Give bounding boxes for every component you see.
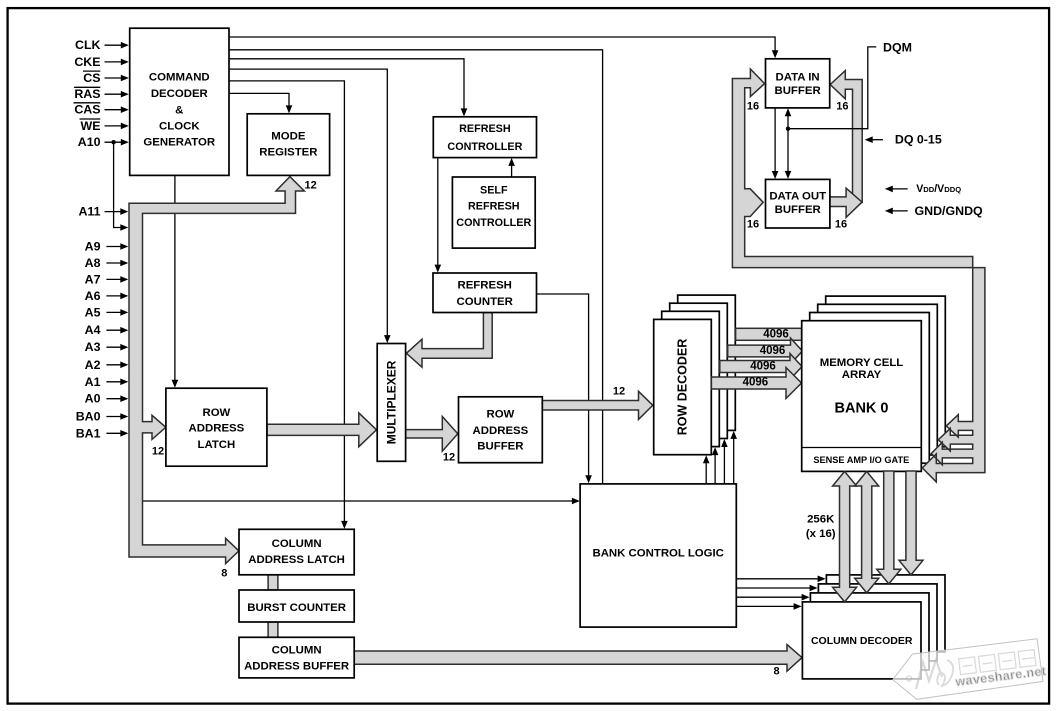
wire bank control logic to row decoder bank0 (705, 460, 707, 484)
box data in buffer (766, 59, 830, 108)
box row decoder bank2 (670, 303, 728, 438)
wire address bus to bank control logic (143, 500, 576, 502)
svg-text:CKE: CKE (74, 55, 100, 69)
wire RAS input (105, 93, 124, 95)
svg-text:BANK 0: BANK 0 (835, 401, 889, 417)
box refresh controller (433, 117, 536, 158)
svg-text:CS: CS (83, 71, 100, 85)
svg-text:CLOCK: CLOCK (159, 120, 200, 132)
svg-text:16: 16 (835, 219, 847, 231)
box row decoder bank1 (662, 311, 720, 446)
wire gray arrow column address buffer to column decoder (354, 645, 802, 672)
box row address buffer (459, 397, 543, 463)
svg-text:BA0: BA0 (76, 410, 101, 424)
wire gray double arrow sense amp to column decoder bank0 (833, 471, 857, 602)
wire gray arrow row address buffer to row decoder (542, 391, 653, 419)
wire bank control logic to row decoder bank1 (714, 451, 716, 483)
wire self refresh controller to refresh controller (511, 163, 513, 178)
svg-text:12: 12 (304, 180, 316, 192)
svg-text:A6: A6 (85, 289, 101, 303)
wire CKE input (105, 61, 124, 63)
box column address buffer (239, 637, 354, 678)
box column decoder bank0 (802, 602, 921, 679)
svg-text:8: 8 (773, 666, 779, 678)
svg-text:8: 8 (221, 568, 227, 580)
svg-text:4096: 4096 (750, 360, 776, 372)
svg-text:A0: A0 (85, 392, 101, 406)
svg-text:12: 12 (613, 385, 625, 397)
svg-text:GND/GNDQ: GND/GNDQ (915, 204, 984, 218)
svg-text:BUFFER: BUFFER (477, 440, 523, 452)
svg-text:BA1: BA1 (76, 426, 101, 440)
wire A5 input (106, 311, 123, 313)
wire DQM input (788, 47, 876, 129)
box self refresh controller (452, 177, 535, 248)
box row decoder bank3 (678, 295, 736, 430)
wire bank control logic to row decoder bank2 (723, 443, 725, 483)
wire WE input (105, 125, 124, 127)
svg-text:12: 12 (443, 451, 455, 463)
svg-text:(x 16): (x 16) (806, 528, 836, 540)
wire command decoder to multiplexer (229, 69, 387, 338)
svg-text:COLUMN: COLUMN (272, 644, 322, 656)
wire data in buffer to data out buffer (774, 108, 776, 175)
svg-text:4096: 4096 (743, 377, 769, 389)
box memory cell array bank2 (818, 304, 938, 455)
svg-text:REFRESH: REFRESH (459, 123, 511, 135)
svg-text:CONTROLLER: CONTROLLER (456, 217, 531, 229)
box data out buffer (766, 179, 830, 228)
svg-text:VDD/VDDQ: VDD/VDDQ (916, 183, 961, 195)
svg-text:REGISTER: REGISTER (259, 147, 317, 159)
svg-text:BURST COUNTER: BURST COUNTER (247, 602, 346, 614)
box refresh counter (433, 273, 537, 313)
svg-text:CAS: CAS (74, 103, 100, 117)
wire A4 input (106, 329, 123, 331)
wire gray arrow row address latch to multiplexer (267, 413, 377, 447)
box command decoder & clock generator (130, 28, 229, 175)
svg-text:ADDRESS: ADDRESS (189, 423, 245, 435)
svg-text:ROW DECODER: ROW DECODER (676, 339, 690, 436)
svg-text:SENSE AMP I/O GATE: SENSE AMP I/O GATE (813, 455, 909, 465)
wire command decoder to data in buffer (229, 37, 775, 53)
svg-text:GENERATOR: GENERATOR (143, 137, 215, 149)
wire bank control logic to column decoder bank1 (736, 596, 805, 598)
wire GND/GNDQ input (890, 210, 908, 212)
wire command decoder to bank control logic (229, 50, 603, 484)
wire gray bus 4096 row decoder to memory bank1 (720, 354, 802, 380)
svg-text:DQ 0-15: DQ 0-15 (895, 133, 942, 147)
wire BA0 input (106, 416, 123, 418)
svg-text:DQM: DQM (883, 41, 912, 55)
watermark waveshare tag (893, 639, 1043, 700)
box multiplexer (377, 344, 405, 462)
wire A10 branch down to address bus (114, 142, 123, 227)
svg-text:CLK: CLK (75, 38, 101, 52)
svg-text:BUFFER: BUFFER (775, 204, 821, 216)
box memory cell array bank0 (802, 321, 922, 472)
wire gray bar burst counter to column address buffer (268, 622, 278, 637)
svg-text:16: 16 (747, 219, 759, 231)
wire gray bus 4096 row decoder to memory bank2 (728, 338, 803, 364)
wire gray arrow data out buffer to DQ bus (829, 188, 862, 217)
wire gray DQ bus with arrow into data in buffer (830, 71, 862, 203)
box memory cell array bank3 (826, 296, 946, 447)
wire gray double arrow sense amp to column decoder bank1 (855, 471, 879, 593)
wire command decoder to row address latch (174, 175, 176, 383)
wire gray bar column address latch to burst counter (268, 575, 278, 590)
box column decoder bank1 (810, 593, 929, 670)
wire A2 input (106, 364, 123, 366)
svg-text:CONTROLLER: CONTROLLER (447, 141, 522, 153)
wire command decoder to column address latch (229, 81, 344, 524)
svg-text:BANK CONTROL LOGIC: BANK CONTROL LOGIC (592, 548, 723, 560)
box mode register (247, 114, 329, 176)
svg-text:4096: 4096 (763, 328, 789, 340)
svg-text:A1: A1 (85, 375, 101, 389)
wire BA1 input (106, 432, 123, 434)
svg-text:ROW: ROW (486, 408, 514, 420)
wire A3 input (106, 346, 123, 348)
svg-text:A11: A11 (78, 205, 100, 219)
wire command decoder to mode register (229, 93, 289, 108)
box column decoder bank3 (826, 575, 945, 652)
svg-text:ROW: ROW (202, 407, 230, 419)
wire CS input (105, 77, 124, 79)
svg-text:DATA OUT: DATA OUT (769, 191, 826, 203)
wire A6 input (106, 295, 123, 297)
svg-text:256K: 256K (807, 514, 835, 526)
svg-text:BUFFER: BUFFER (774, 85, 820, 97)
box burst counter (239, 590, 354, 622)
wire A10 input (105, 141, 124, 143)
svg-text:ADDRESS: ADDRESS (473, 425, 529, 437)
wire refresh counter to bank control logic (537, 294, 589, 479)
svg-text:A10: A10 (78, 135, 101, 149)
svg-text:ADDRESS BUFFER: ADDRESS BUFFER (244, 660, 349, 672)
wire gray arrow refresh counter to multiplexer (406, 313, 492, 368)
svg-text:A8: A8 (85, 256, 101, 270)
svg-text:A7: A7 (85, 272, 101, 286)
svg-text:WE: WE (81, 119, 101, 133)
box row decoder bank0 (654, 319, 712, 454)
wire gray arrow multiplexer to row address buffer (406, 417, 458, 452)
svg-text:A2: A2 (85, 358, 101, 372)
svg-text:COUNTER: COUNTER (457, 296, 513, 308)
box row address latch (166, 388, 267, 466)
svg-text:ADDRESS LATCH: ADDRESS LATCH (248, 554, 345, 566)
svg-text:A4: A4 (85, 323, 101, 337)
wire A9 input (106, 246, 123, 248)
wire bank control logic to column decoder bank0 (736, 605, 797, 607)
wire DQ 0-15 input (869, 139, 883, 141)
svg-text:A5: A5 (85, 305, 101, 319)
svg-text:MEMORY CELL: MEMORY CELL (820, 357, 904, 369)
svg-text:RAS: RAS (74, 87, 100, 101)
svg-text:MULTIPLEXER: MULTIPLEXER (384, 360, 398, 444)
wire VDD/VDDQ input (890, 188, 908, 190)
box column decoder bank2 (818, 584, 937, 661)
wire refresh controller to refresh counter (437, 158, 439, 268)
wire A7 input (106, 278, 123, 280)
svg-text:REFRESH: REFRESH (468, 201, 520, 213)
wire gray write bus data in buffer loop to sense amps of four banks (732, 69, 985, 482)
wire command decoder to refresh controller (229, 59, 464, 112)
wire bank control logic to row decoder bank3 (733, 435, 735, 483)
wire sense amp divider line (802, 447, 922, 449)
svg-text:4096: 4096 (760, 345, 786, 357)
svg-text:SELF: SELF (480, 185, 508, 197)
svg-text:12: 12 (152, 446, 164, 458)
wire gray arrow sense amp to column decoder bank2 (877, 471, 901, 584)
svg-text:A9: A9 (85, 240, 101, 254)
wire CAS input (105, 109, 124, 111)
wire A11 input (105, 211, 124, 213)
wire gray address bus with arrow to mode register, arrow to row address latch, arrow to column address latch (129, 177, 304, 564)
svg-text:16: 16 (836, 101, 848, 113)
svg-text:&: & (175, 105, 183, 117)
node A10 junction (111, 140, 115, 144)
box bank control logic (580, 484, 736, 627)
svg-text:COLUMN: COLUMN (272, 538, 322, 550)
svg-text:16: 16 (747, 101, 759, 113)
svg-text:REFRESH: REFRESH (457, 279, 511, 291)
svg-text:DATA IN: DATA IN (776, 72, 820, 84)
wire A0 input (106, 398, 123, 400)
wire bank control logic to column decoder bank3 (736, 578, 821, 580)
svg-text:A3: A3 (85, 340, 101, 354)
wire gray bus 4096 row decoder to memory bank3 (736, 328, 803, 340)
wire A8 input (106, 262, 123, 264)
svg-text:MODE: MODE (271, 130, 306, 142)
wire bank control logic to column decoder bank2 (736, 587, 813, 589)
box memory cell array bank1 (810, 313, 930, 464)
svg-text:COMMAND: COMMAND (149, 71, 210, 83)
svg-text:DECODER: DECODER (151, 88, 208, 100)
svg-text:LATCH: LATCH (198, 439, 236, 451)
wire gray arrow sense amp to column decoder bank3 (899, 471, 923, 575)
svg-text:COLUMN DECODER: COLUMN DECODER (811, 635, 913, 647)
box column address latch (239, 529, 354, 575)
wire gray bus 4096 row decoder to memory bank0 (711, 368, 801, 399)
node DQM junction dot (786, 127, 790, 131)
wire CLK input (105, 44, 124, 46)
wire A1 input (106, 381, 123, 383)
wire data out buffer to data in buffer double arrow (787, 114, 789, 174)
svg-text:ARRAY: ARRAY (842, 369, 882, 381)
